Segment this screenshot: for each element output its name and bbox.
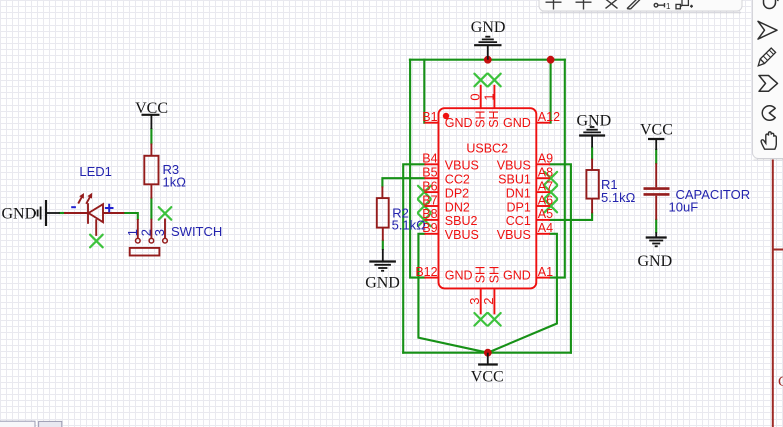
svg-text:SBU1: SBU1 <box>498 173 531 187</box>
svg-text:CC1: CC1 <box>506 214 531 228</box>
svg-text:A6: A6 <box>538 193 553 207</box>
svg-text:B6: B6 <box>422 179 437 193</box>
svg-text:VBUS: VBUS <box>445 159 479 173</box>
svg-text:GND: GND <box>638 253 673 270</box>
svg-text:2: 2 <box>481 298 496 305</box>
svg-text:SH: SH <box>487 110 501 127</box>
svg-text:B7: B7 <box>422 193 437 207</box>
svg-text:3: 3 <box>152 229 167 236</box>
svg-text:3: 3 <box>467 298 482 305</box>
svg-text:CC2: CC2 <box>445 173 470 187</box>
svg-text:A12: A12 <box>538 110 560 124</box>
svg-text:VBUS: VBUS <box>497 159 531 173</box>
svg-text:SH: SH <box>474 266 488 283</box>
svg-text:A5: A5 <box>538 207 553 221</box>
svg-text:1: 1 <box>482 93 497 100</box>
svg-text:10uF: 10uF <box>669 200 699 215</box>
svg-text:DN1: DN1 <box>506 186 531 200</box>
svg-text:A1: A1 <box>538 265 553 279</box>
svg-text:GND: GND <box>2 205 37 222</box>
svg-text:SH: SH <box>487 266 501 283</box>
svg-text:VCC: VCC <box>135 100 168 117</box>
svg-text:B1: B1 <box>422 110 437 124</box>
svg-text:GND: GND <box>445 269 473 283</box>
svg-text:GND: GND <box>503 116 531 130</box>
svg-text:SH: SH <box>473 110 487 127</box>
svg-text:SBU2: SBU2 <box>445 214 478 228</box>
svg-text:A7: A7 <box>538 179 553 193</box>
svg-text:USBC2: USBC2 <box>466 142 508 156</box>
svg-text:5.1kΩ: 5.1kΩ <box>392 218 427 233</box>
svg-text:VCC: VCC <box>471 369 504 386</box>
svg-text:A8: A8 <box>538 166 553 180</box>
svg-text:GND: GND <box>471 19 506 36</box>
svg-text:1: 1 <box>666 2 671 11</box>
svg-text:GND: GND <box>445 116 473 130</box>
svg-text:DN2: DN2 <box>445 200 470 214</box>
svg-text:LED1: LED1 <box>79 164 112 179</box>
svg-text:VBUS: VBUS <box>497 228 531 242</box>
svg-text:VBUS: VBUS <box>445 228 479 242</box>
svg-text:GND: GND <box>577 113 612 130</box>
svg-text:GND: GND <box>365 275 400 292</box>
svg-text:SWITCH: SWITCH <box>171 224 222 239</box>
svg-text:0: 0 <box>467 93 482 100</box>
svg-text:B4: B4 <box>422 152 437 166</box>
svg-text:B5: B5 <box>422 166 437 180</box>
svg-text:B12: B12 <box>415 265 437 279</box>
svg-text:GND: GND <box>503 269 531 283</box>
svg-text:VCC: VCC <box>640 122 673 139</box>
svg-text:5.1kΩ: 5.1kΩ <box>601 190 636 205</box>
svg-text:A4: A4 <box>538 221 553 235</box>
svg-text:1kΩ: 1kΩ <box>163 174 187 189</box>
svg-text:C: C <box>778 374 783 390</box>
svg-text:DP2: DP2 <box>445 186 469 200</box>
svg-text:A9: A9 <box>538 152 553 166</box>
svg-text:DP1: DP1 <box>506 200 530 214</box>
